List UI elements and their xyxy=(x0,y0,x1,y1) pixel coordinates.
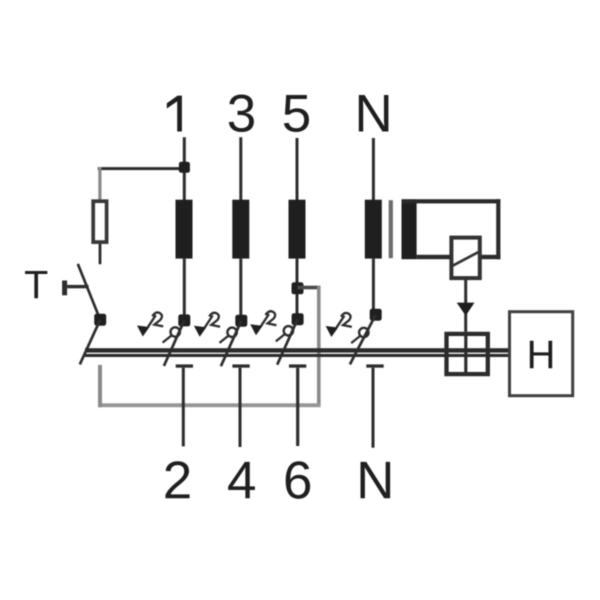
node contact pole1 xyxy=(178,314,190,326)
CT primary bar pole3 xyxy=(232,200,249,259)
trip symbol pole1 xyxy=(137,312,180,342)
linkage bottom horizontal (gray) xyxy=(98,403,321,407)
wire L3 top lead xyxy=(239,137,242,200)
wire test branch vertical (gray) xyxy=(98,167,101,200)
terminal label 6 xyxy=(286,461,310,499)
terminal label N bottom xyxy=(361,462,391,498)
fixed terminal bar pole5 xyxy=(289,364,306,367)
label H xyxy=(530,341,552,369)
coupling box xyxy=(447,334,488,374)
terminal label 2 xyxy=(165,461,189,498)
fixed terminal bar poleN xyxy=(366,364,383,367)
CT primary bar pole5 xyxy=(289,200,306,259)
CT primary bar poleN xyxy=(365,200,382,259)
wire L1 top lead xyxy=(183,137,186,200)
wire below resistor xyxy=(99,244,102,264)
contact blade pole1 xyxy=(164,320,184,366)
CT secondary bar xyxy=(402,199,417,259)
CT frame bottom conductor xyxy=(417,255,501,259)
terminal label 4 xyxy=(228,462,255,498)
bus bar lower line xyxy=(85,354,508,357)
wire relay to coupling xyxy=(464,280,467,332)
wire test branch horizontal xyxy=(98,167,185,170)
node pole5 linkage junction xyxy=(292,282,304,294)
wire lead to 4 xyxy=(239,368,242,447)
linkage vertical right (gray) xyxy=(317,286,321,406)
label T test button xyxy=(25,271,47,298)
wire lead to N bottom xyxy=(372,368,375,448)
wire N to contact xyxy=(372,259,375,310)
test actuator bar xyxy=(62,281,67,296)
CT frame right edge xyxy=(496,199,500,259)
terminal label N top xyxy=(359,95,389,131)
coupling box internal vertical xyxy=(464,334,467,374)
wire L5 to contact xyxy=(296,259,299,315)
contact blade poleN xyxy=(350,315,376,365)
CT core line xyxy=(389,200,393,258)
trip symbol pole3 xyxy=(194,313,237,343)
node contact pole5 xyxy=(292,313,304,325)
contact blade pole3 xyxy=(221,321,241,367)
trip symbol pole5 xyxy=(250,311,293,341)
wire L5 top lead xyxy=(296,138,299,200)
wire lead to 6 xyxy=(296,368,299,446)
contact blade pole5 xyxy=(277,319,297,365)
wire linkage horizontal from pole5 xyxy=(298,286,320,290)
test switch blade lower xyxy=(80,320,100,365)
arrow trip direction xyxy=(457,303,475,316)
node contact pole3 xyxy=(235,315,247,327)
H box (auxiliary) xyxy=(510,312,573,396)
fixed terminal bar pole3 xyxy=(232,364,249,367)
wire lead to 2 xyxy=(182,368,185,447)
bus bar upper line xyxy=(85,348,508,352)
terminal label 5 xyxy=(284,95,309,132)
CT primary bar pole1 xyxy=(176,200,193,259)
linkage left vertical (gray) xyxy=(98,365,102,407)
terminal label 3 xyxy=(229,94,254,132)
terminal label 1 xyxy=(167,96,182,132)
CT frame top edge xyxy=(402,199,501,203)
resistor R test xyxy=(93,201,106,242)
trip symbol poleN xyxy=(326,313,369,343)
wire N top lead xyxy=(372,138,375,200)
node contact poleN xyxy=(370,309,382,321)
test switch blade upper xyxy=(78,264,100,320)
node junction on L1 xyxy=(179,162,190,173)
node test switch pivot xyxy=(94,314,106,326)
fixed terminal bar pole1 xyxy=(176,364,193,367)
test actuator link xyxy=(67,285,89,288)
relay K box xyxy=(451,238,479,279)
wire L3 to contact xyxy=(239,259,242,316)
wire L1 to contact xyxy=(183,259,186,316)
relay contact diagonal xyxy=(453,251,481,266)
